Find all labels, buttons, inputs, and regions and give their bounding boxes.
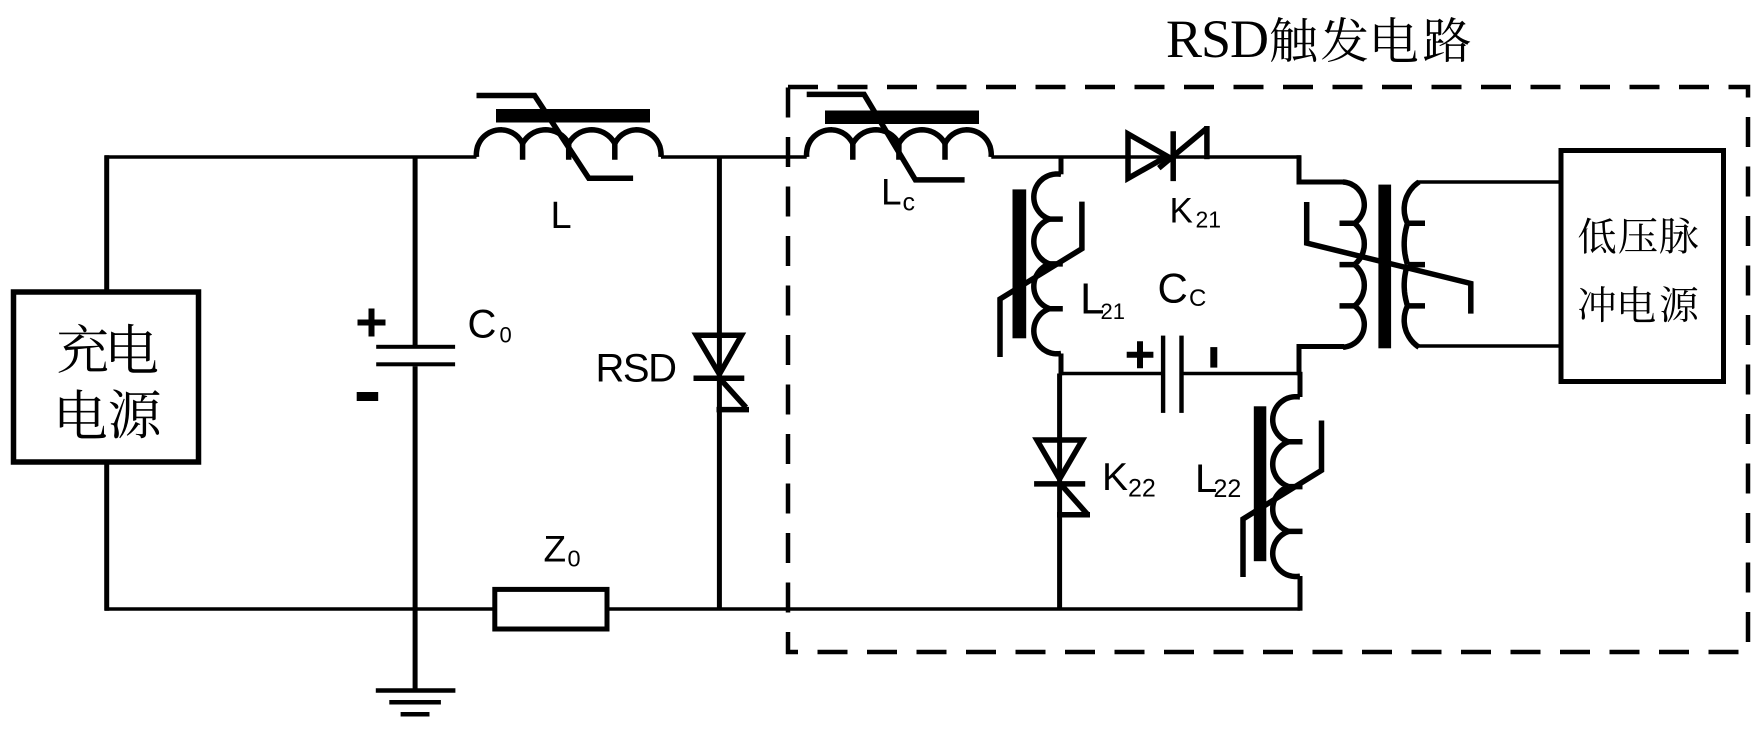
RSD gate stroke diagonal (719, 377, 747, 408)
svg-text:RSD: RSD (1166, 9, 1268, 69)
resistor Z0 box (495, 589, 607, 629)
inductor L22 core bar (1254, 406, 1267, 561)
svg-text:21: 21 (1196, 207, 1222, 233)
capacitor C0 top plate (376, 345, 455, 349)
inductor L21 core bar (1013, 189, 1027, 338)
inductor L22 coil (1273, 397, 1300, 577)
diode K21 gate stroke bar (1204, 126, 1210, 159)
wire L22 bottom lead (1298, 576, 1303, 611)
ground bar 2 (389, 700, 441, 705)
svg-text:C: C (1158, 265, 1188, 312)
inductor L core bar (496, 109, 650, 123)
inductor L21 coil (1034, 174, 1061, 354)
diode K21 cathode bar (1170, 131, 1176, 181)
svg-text:22: 22 (1214, 475, 1242, 503)
pulse source text 源 (1661, 286, 1698, 322)
diode K22 gate stroke diagonal (1059, 482, 1087, 514)
diode K22 cathode bar (1034, 481, 1085, 487)
inductor L coil (476, 130, 661, 157)
wire transformer secondary bottom lead (1418, 344, 1561, 347)
wire RSD branch (717, 157, 722, 609)
inductor Lc saturation stroke (807, 94, 965, 179)
inductor L21 saturation stroke (1000, 202, 1082, 357)
pulse source text 冲 (1579, 286, 1615, 322)
wire top bus middle segment (661, 155, 807, 158)
transformer saturation stroke (1307, 202, 1471, 314)
pulse source text 低 (1579, 218, 1616, 254)
wire transformer primary bottom lead (1299, 347, 1344, 376)
charging source text 源 (110, 389, 160, 438)
svg-text:C: C (468, 302, 497, 346)
capacitor C0 minus sign (357, 392, 379, 401)
wire transformer secondary top lead (1418, 180, 1561, 183)
diode K21 triangle (1128, 134, 1167, 179)
diode K22 triangle (1037, 440, 1083, 479)
ground bar 3 (401, 712, 430, 717)
transformer core bar (1378, 185, 1391, 349)
wire bottom bus right segment (607, 607, 1300, 610)
svg-text:C: C (1189, 285, 1206, 312)
svg-text:Z: Z (544, 528, 567, 569)
diode K22 gate stroke bar (1057, 512, 1090, 518)
capacitor Cc right plate (1179, 336, 1183, 413)
capacitor C0 bottom plate (376, 362, 455, 366)
svg-text:22: 22 (1128, 474, 1156, 502)
inductor L saturation stroke (477, 96, 634, 179)
capacitor C0 plus sign (358, 309, 386, 337)
svg-text:L: L (551, 195, 572, 237)
svg-text:K: K (1170, 192, 1193, 231)
charging source text 电 (line2) (60, 389, 106, 438)
wire L21 bottom lead (1059, 354, 1064, 376)
charging source box (充电电源) (14, 292, 199, 462)
low-voltage pulse source box (低压脉冲电源) (1561, 151, 1724, 382)
svg-text:21: 21 (1101, 299, 1125, 324)
title text 触 (1271, 17, 1316, 62)
inductor L22 saturation stroke (1243, 421, 1322, 578)
inductor Lc coil (807, 130, 992, 157)
svg-text:c: c (903, 189, 916, 217)
wire C0 branch upper (413, 157, 418, 345)
wire L22 top lead (1298, 372, 1303, 397)
wire top bus right segment (991, 155, 1300, 158)
wire loop bottom right of Cc (1182, 372, 1302, 375)
ground stem (413, 609, 418, 690)
inductor Lc core bar (825, 111, 979, 125)
RSD triangle (696, 335, 741, 374)
diode K21 gate stroke diagonal (1159, 128, 1207, 168)
charging source text 充 (59, 324, 108, 373)
title text 发 (1322, 17, 1367, 62)
wire left vertical to charging source top (104, 155, 109, 292)
wire bottom bus left segment (105, 607, 495, 610)
ground bar 1 (376, 688, 456, 693)
wire C0 branch lower (413, 366, 418, 609)
svg-text:L: L (881, 172, 902, 213)
charging source text 电 (line1) (111, 324, 157, 373)
wire top bus left segment (105, 155, 477, 158)
wire L21 top lead (1059, 157, 1064, 174)
RSD gate stroke bar (717, 407, 750, 413)
title text 路 (1424, 17, 1470, 62)
wire K22 branch (1057, 374, 1062, 610)
title text 电 (1375, 17, 1417, 62)
capacitor Cc left plate (1161, 336, 1165, 413)
pulse source text 压 (1619, 218, 1657, 254)
pulse source text 脉 (1660, 218, 1698, 254)
svg-text:0: 0 (568, 545, 581, 571)
capacitor Cc plus sign (1127, 341, 1154, 368)
pulse source text 电 (1621, 286, 1655, 322)
wire loop bottom left of Cc (1059, 372, 1163, 375)
wire step down to transformer primary top (1299, 155, 1344, 182)
svg-text:RSD: RSD (596, 347, 676, 391)
transformer secondary winding (1404, 182, 1419, 347)
wire charging source bottom to bottom bus (104, 462, 109, 611)
capacitor Cc minus tick (1210, 347, 1217, 368)
svg-text:K: K (1102, 456, 1128, 499)
transformer primary winding (1343, 182, 1364, 347)
RSD cathode bar (694, 376, 745, 382)
dashed boundary box of RSD trigger circuit (788, 87, 1748, 652)
svg-text:0: 0 (500, 323, 512, 348)
